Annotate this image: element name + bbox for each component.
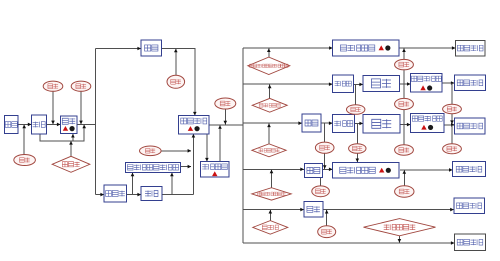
right bus vertical	[242, 48, 244, 243]
inspection E4 up arrow	[174, 49, 178, 76]
chain E12 from row3	[356, 123, 358, 144]
row3 line to cabling	[243, 121, 302, 125]
row6 bottom line to packing	[243, 241, 455, 245]
inspection E16	[395, 186, 414, 197]
chain E7 up to row1	[402, 48, 406, 59]
row2 line to inner sheath	[243, 82, 333, 86]
process box copper single wire	[104, 185, 127, 202]
branch up to mica tape left	[131, 173, 135, 195]
branch up to mica tape right	[170, 173, 174, 195]
inspection E14	[443, 144, 462, 154]
inspection E4	[167, 75, 185, 88]
row1 box packing storage	[456, 40, 486, 56]
annealing loop	[40, 125, 86, 141]
row4 line to cabling	[243, 168, 304, 172]
inspection E5 down arrow	[224, 109, 228, 124]
inspection E5	[215, 98, 236, 109]
row6 box packing storage	[455, 234, 486, 251]
row3 jacket to packing	[444, 123, 455, 127]
wire bunching to extrude insulation	[162, 48, 197, 115]
row5 line to pairing	[243, 208, 304, 212]
drop insulation to crosslink	[205, 134, 209, 162]
row4 box packing storage	[453, 162, 486, 177]
process box wire drawing	[31, 115, 46, 134]
arrow unsheathed diamond down	[398, 236, 402, 243]
arrow diamond D3 up	[267, 124, 271, 146]
wire bus to copper single wire	[96, 193, 104, 197]
row3 armor to jacket	[400, 123, 411, 127]
decision diamond D4 single core note	[252, 188, 292, 200]
inspection E17 up arrow	[325, 210, 329, 226]
wire inspection E6 to riser	[161, 149, 191, 153]
row4 box extrude outer jacket	[333, 163, 400, 179]
row1 line to jacket	[243, 46, 333, 50]
decision diamond D2 bypass note	[252, 98, 287, 112]
chain E12 into row4 jacket top	[356, 153, 360, 162]
inspection E7	[395, 59, 414, 69]
wire copper to drawing	[18, 123, 31, 127]
process box warm water crosslink	[201, 162, 230, 178]
chain E13 from row3	[403, 125, 405, 145]
inspection E15	[312, 186, 330, 197]
wire copper single to stranding	[127, 193, 142, 197]
wire mica tape to riser	[181, 165, 191, 169]
row2 box packing storage	[455, 75, 486, 91]
chain E11 to row4 wire	[323, 153, 327, 169]
inspection E3 down arrow	[79, 91, 83, 124]
process box copper material	[4, 116, 18, 134]
inspection E6	[140, 146, 162, 156]
process box bunching	[141, 40, 162, 56]
row5 pairing to packing	[323, 208, 454, 212]
inspection E1	[14, 155, 36, 166]
row2 armor to jacket	[399, 82, 410, 86]
row3 box cabling	[302, 114, 321, 132]
row4 jacket to packing	[400, 168, 453, 172]
row5 box pairing	[304, 202, 323, 218]
process box extrude insulation	[179, 116, 210, 134]
arrow diamond lianlatui up	[69, 141, 73, 156]
decision diamond D6 unsheathed cable	[364, 219, 436, 236]
arrow diamond D2 up	[268, 85, 272, 99]
loop branch to annealing bottom	[71, 134, 75, 141]
row3 box inner sheath	[333, 115, 355, 133]
row1 box extrude outer jacket	[333, 40, 399, 56]
arrow diamond D4 up	[270, 170, 274, 188]
arrow diamond D1 up	[267, 48, 271, 57]
wire drawing to annealing	[46, 123, 60, 127]
row3 box armoring	[363, 115, 400, 133]
decision diamond D3 bypass note	[252, 144, 286, 157]
inspection E17	[318, 226, 336, 238]
arrow diamond D5 up	[269, 210, 273, 221]
chain E11 from row3	[324, 123, 326, 142]
inspection E3	[71, 81, 91, 91]
chain E14 from row3	[451, 125, 453, 144]
inspection E16 up arrow	[403, 170, 407, 186]
row1 jacket to packing	[399, 46, 456, 50]
wire stranding right	[162, 194, 193, 196]
wire annealing to left bus	[77, 123, 96, 125]
chain E9 from row2	[403, 84, 405, 98]
chain E10 to row3 wire	[450, 114, 454, 124]
row2 box extrude outer jacket	[411, 74, 443, 93]
chain E10 from row2	[451, 83, 453, 104]
row2 box armoring	[363, 75, 399, 91]
inspection E15 up arrow	[319, 170, 323, 186]
row2 jacket to packing	[442, 81, 454, 85]
chain E7 down to row2	[403, 70, 405, 84]
inspection E10	[443, 104, 462, 113]
riser crosslink to out wire	[218, 125, 222, 161]
inspection E13	[395, 145, 414, 156]
row3 cabling to inner	[321, 121, 333, 125]
process box fire-resistant mica tape	[126, 162, 181, 172]
decision diamond D7 continuous draw-anneal	[52, 156, 90, 172]
row3 box packing storage	[455, 118, 486, 134]
inspection E8	[347, 105, 365, 115]
row4 cabling to jacket	[323, 168, 333, 172]
inspection E12	[349, 144, 366, 154]
row5 box packing storage	[454, 198, 485, 214]
inspection E9	[395, 98, 414, 109]
inspection E11	[315, 142, 334, 153]
wire bus to bunching	[96, 47, 141, 51]
process box stranding	[141, 187, 162, 201]
inspection E1 up arrow	[22, 125, 26, 155]
process box annealing	[61, 116, 78, 134]
row2 box inner sheath	[333, 75, 354, 93]
inspection E2	[43, 81, 63, 91]
riser to extrude insulation bottom	[192, 134, 196, 195]
inspection E2 down arrow	[51, 91, 55, 124]
chain E8 into row3 inner sheath	[355, 113, 357, 115]
row2 inner to armor	[354, 83, 364, 87]
chain E9 to row3 wire	[403, 110, 405, 125]
chain E8 from row2	[355, 84, 357, 104]
row4 box cabling	[304, 164, 322, 178]
wire insulation out to right bus	[210, 124, 243, 126]
row3 inner to armor	[355, 122, 364, 126]
left bus vertical	[95, 49, 97, 195]
decision diamond D5 twisted pair	[253, 221, 288, 235]
row3 box extrude outer jacket	[411, 113, 445, 132]
decision diamond D1 bypass note	[248, 57, 290, 75]
